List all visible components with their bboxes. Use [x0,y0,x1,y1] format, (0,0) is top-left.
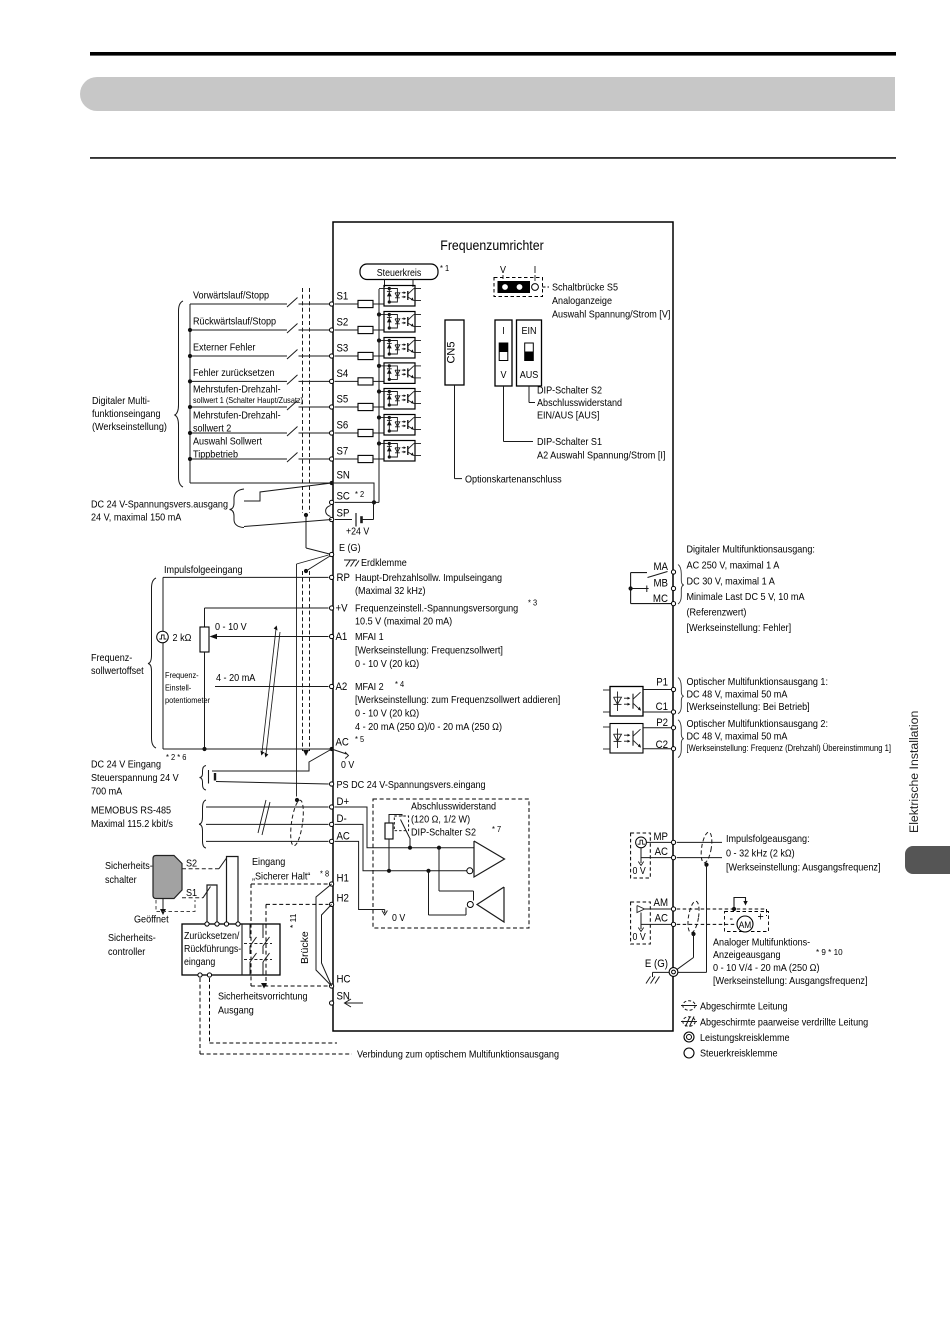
controller bottom terminals [198,973,202,977]
arrow at SN [345,1002,363,1004]
grey header bar [80,77,895,111]
svg-text:AC: AC [655,846,668,858]
svg-text:E (G): E (G) [339,543,361,554]
svg-text:Steuerkreisklemme: Steuerkreisklemme [700,1049,778,1060]
terminal C2 [671,747,675,751]
wire +V [205,607,329,609]
svg-text:Vorwärtslauf/Stopp: Vorwärtslauf/Stopp [193,291,269,302]
svg-text:Rückwärtslauf/Stopp: Rückwärtslauf/Stopp [193,317,276,328]
svg-text:Elektrische Installation: Elektrische Installation [907,710,921,833]
control-circuit block Steuerkreis [360,264,438,280]
wire A2 [215,686,329,688]
terminal D- [330,822,334,826]
brace optical 1 [678,678,684,714]
svg-text:* 11: * 11 [288,913,298,928]
svg-text:A2: A2 [336,681,348,693]
shield oval MP cable [699,831,713,863]
dashed box Sicherer Halt outer [251,883,329,885]
dashed meter frame [725,912,769,932]
relay contact [630,573,632,604]
terminal AM [671,907,675,911]
svg-text:* 1: * 1 [440,263,449,273]
svg-text:funktionseingang: funktionseingang [92,409,161,420]
svg-text:AUS: AUS [520,370,539,381]
svg-text:24 V, maximal 150 mA: 24 V, maximal 150 mA [91,513,181,524]
shield drain to earth [304,513,308,517]
terminal MP [671,840,675,844]
svg-text:MB: MB [654,578,669,590]
svg-text:MEMOBUS RS-485: MEMOBUS RS-485 [91,806,171,817]
svg-text:Digitaler Multi-: Digitaler Multi- [92,396,150,407]
svg-text:S2: S2 [337,317,349,329]
svg-text:[Werkseinstellung: zum Frequen: [Werkseinstellung: zum Frequenzsollwert … [355,695,560,706]
drain MP shield [706,865,708,973]
svg-text:RP: RP [337,572,350,584]
svg-text:Frequenzumrichter: Frequenzumrichter [440,237,544,253]
wire AC memobus [206,840,329,842]
legend shielded line [683,1001,695,1011]
wire driver branch [437,846,441,850]
svg-text:S2: S2 [186,859,197,870]
contact linkage dashed [244,943,272,945]
digital input common bus (left) [189,304,191,483]
svg-text:Erdklemme: Erdklemme [361,558,407,569]
terminal H2 [330,902,334,906]
terminal AC analog common [330,747,334,751]
wire receiver branch [426,869,430,873]
svg-text:* 5: * 5 [355,734,364,744]
opto supply bus [378,289,380,502]
svg-text:S7: S7 [337,446,349,458]
svg-text:V: V [501,370,507,381]
svg-text:[Werkseinstellung: Ausgangsfre: [Werkseinstellung: Ausgangsfrequenz] [713,976,868,987]
earth symbol right [653,971,670,973]
svg-text:Einstell-: Einstell- [165,683,191,693]
open arrow Geoeffnet [162,899,164,911]
svg-text:D+: D+ [337,796,350,808]
terminal MB [671,586,675,590]
controller top terminals [205,922,209,926]
wire MP [646,841,671,843]
photocoupler output 1 [610,687,643,717]
svg-text:(120 Ω, 1/2 W): (120 Ω, 1/2 W) [411,815,470,826]
svg-text:H2: H2 [337,893,349,905]
svg-text:Frequenz-: Frequenz- [91,653,132,664]
svg-text:HC: HC [337,974,351,986]
wire AC pulse [640,848,642,863]
svg-text:schalter: schalter [105,875,137,886]
svg-text:2 kΩ: 2 kΩ [173,633,192,644]
svg-text:S1: S1 [337,291,349,303]
bridge H1 to HC [316,884,332,986]
drain AM shield [693,934,695,958]
svg-text:sollwert 1 (Schalter Haupt/Zus: sollwert 1 (Schalter Haupt/Zusatz) [193,395,303,405]
svg-text:Sicherheits-: Sicherheits- [108,933,156,944]
photocoupler output 2 [610,724,643,754]
svg-text:Leistungskreisklemme: Leistungskreisklemme [700,1033,790,1044]
left analog bus [162,577,164,749]
svg-text:S4: S4 [337,368,349,380]
optocoupler for S7 [384,441,415,462]
recorder loop symbol [734,898,746,910]
svg-text:MFAI 2: MFAI 2 [355,682,384,693]
svg-text:MP: MP [654,831,669,843]
svg-text:EIN/AUS [AUS]: EIN/AUS [AUS] [537,411,600,422]
svg-text:Schaltbrücke S5: Schaltbrücke S5 [552,283,618,294]
drain wire to MEMOBUS shield [296,564,298,797]
svg-text:0 V: 0 V [392,913,405,924]
0V arrow AM [638,928,643,932]
svg-text:-: - [730,911,734,925]
svg-text:potentiometer: potentiometer [165,695,210,705]
termination switch [394,816,408,831]
svg-text:DC 48 V, maximal 50 mA: DC 48 V, maximal 50 mA [687,690,788,701]
twisted pair marks analog [262,629,276,752]
shield oval MEMOBUS [288,799,305,846]
battery +24V [335,519,352,521]
svg-text:DC 24 V Eingang: DC 24 V Eingang [91,760,161,771]
svg-text:0 - 10 V (20 kΩ): 0 - 10 V (20 kΩ) [355,659,419,670]
svg-text:Anzeigeausgang: Anzeigeausgang [713,950,781,961]
dashed box Abschlusswiderstand [373,799,529,928]
optocoupler for S5 [384,389,415,410]
terminal C1 [671,710,675,714]
dashed box Sicherer Halt inner [266,903,329,905]
svg-text:Optischer Multifunktionsausgan: Optischer Multifunktionsausgang 2: [687,719,829,730]
wire D+ [206,806,329,808]
jumper bracket SC-SP [326,506,331,517]
svg-text:Zurücksetzen/: Zurücksetzen/ [184,931,239,942]
wire AM [645,908,672,910]
svg-text:Externer Fehler: Externer Fehler [193,343,256,354]
shield of analog cable (dashed) [302,571,304,751]
svg-text:* 8: * 8 [320,869,329,879]
svg-text:I: I [534,265,537,276]
svg-text:A2 Auswahl Spannung/Strom [I]: A2 Auswahl Spannung/Strom [I] [537,451,666,462]
jumper S5 block [494,278,543,297]
svg-text:AM: AM [739,920,752,931]
wire AC analog [163,748,332,750]
connector CN5 [445,320,464,385]
svg-text:10.5 V (maximal 20 mA): 10.5 V (maximal 20 mA) [355,617,452,628]
terminal +V [330,606,334,610]
wire S2 dashed [182,868,219,870]
svg-text:C2: C2 [656,739,668,751]
svg-text:Geöffnet: Geöffnet [134,915,169,926]
svg-text:Optischer Multifunktionsausgan: Optischer Multifunktionsausgang 1: [687,677,829,688]
wire RP [163,576,329,578]
loop wire S1 to controller [207,885,217,924]
svg-text:0 - 32 kHz (2 kΩ): 0 - 32 kHz (2 kΩ) [726,849,795,860]
wire Steuerkreis to opto bus [384,280,386,288]
svg-text:Frequenzeinstell.-Spannungsver: Frequenzeinstell.-Spannungsversorgung [355,604,518,615]
svg-text:Verbindung zum optischem Multi: Verbindung zum optischem Multifunktionsa… [357,1050,559,1061]
svg-text:Abgeschirmte Leitung: Abgeschirmte Leitung [700,1002,788,1013]
svg-text:Mehrstufen-Drehzahl-: Mehrstufen-Drehzahl- [193,411,281,422]
svg-text:Rückführungs-: Rückführungs- [184,944,241,955]
svg-text:C1: C1 [656,701,668,713]
terminal P1 [671,687,675,691]
svg-text:DC 48 V, maximal 50 mA: DC 48 V, maximal 50 mA [687,732,788,743]
svg-text:DIP-Schalter S2: DIP-Schalter S2 [537,386,602,397]
svg-text:S3: S3 [337,343,349,355]
svg-text:AM: AM [654,897,669,909]
wire SN out to DC24V brace [244,483,332,501]
svg-text:A1: A1 [336,631,348,643]
svg-text:Abschlusswiderstand: Abschlusswiderstand [411,802,496,813]
svg-text:Optionskartenanschluss: Optionskartenanschluss [465,475,562,486]
svg-text:Brücke: Brücke [299,931,311,964]
svg-text:4 - 20 mA: 4 - 20 mA [216,673,255,684]
thin rule under header [90,157,896,159]
svg-text:Haupt-Drehzahlsollw. Impulsein: Haupt-Drehzahlsollw. Impulseingang [355,573,502,584]
legend twisted shielded line [683,1017,695,1027]
terminal MC [671,602,675,606]
svg-text:Sicherheits-: Sicherheits- [105,861,153,872]
svg-text:DIP-Schalter S2: DIP-Schalter S2 [411,828,476,839]
svg-text:EIN: EIN [521,326,536,337]
svg-text:CN5: CN5 [446,341,458,363]
svg-text:Eingang: Eingang [252,857,286,868]
wire DIP S2 to label [528,386,530,403]
terminal P2 [671,726,675,730]
svg-text:SC: SC [337,491,350,503]
svg-text:MA: MA [654,561,669,573]
svg-text:Abschlusswiderstand: Abschlusswiderstand [537,398,622,409]
wire DIP S1 to label [503,386,505,442]
svg-text:* 2: * 2 [355,489,364,499]
svg-text:controller: controller [108,947,146,958]
potentiometer resistor [200,627,209,652]
safety contact chain B [262,924,264,938]
DIP switch S1 [495,320,512,386]
brace DC 24V output [230,489,245,528]
wire D- internal [335,824,467,870]
DIP switch S2 [517,320,542,386]
svg-text:I: I [502,326,505,337]
terminal PS [330,782,334,786]
terminal SP [330,517,334,521]
wire C1 [643,711,671,713]
safety switch body [153,856,182,899]
svg-text:D-: D- [337,813,347,825]
terminal SN [330,481,334,485]
svg-text:DIP-Schalter S1: DIP-Schalter S1 [537,437,602,448]
battery DC24V input [208,770,210,784]
svg-text:[Werkseinstellung: Bei Betrieb: [Werkseinstellung: Bei Betrieb] [687,702,810,713]
shield oval AM cable [686,900,701,933]
svg-text:(Maximal 32 kHz): (Maximal 32 kHz) [355,586,426,597]
wire AC am [640,913,642,930]
meter AM circle [737,916,753,932]
terminal MA [671,570,675,574]
wire CN5 to label [454,385,456,479]
dashed box MP monitor [631,833,651,878]
brace frequency offset [148,578,156,748]
wire D- [206,823,329,825]
svg-text:700 mA: 700 mA [91,787,122,798]
svg-text:eingang: eingang [184,957,215,968]
terminal A1 [330,634,334,638]
svg-text:+: + [758,910,764,924]
legend power terminal [684,1032,694,1042]
svg-text:Fehler zurücksetzen: Fehler zurücksetzen [193,368,275,379]
wire D+ internal [335,807,474,848]
svg-text:DC 24 V-Spannungsvers.ausgang: DC 24 V-Spannungsvers.ausgang [91,500,228,511]
svg-text:0 - 10 V/4 - 20 mA (250 Ω): 0 - 10 V/4 - 20 mA (250 Ω) [713,963,820,974]
legend control terminal [684,1048,694,1058]
svg-text:* 4: * 4 [395,679,404,689]
svg-text:sollwertoffset: sollwertoffset [91,666,144,677]
wire SP out to DC24V brace [244,520,332,527]
terminal AC memobus [330,839,334,843]
svg-text:Frequenz-: Frequenz- [165,670,199,680]
svg-text:0 - 10 V (20 kΩ): 0 - 10 V (20 kΩ) [355,709,419,720]
svg-text:E (G): E (G) [645,958,668,970]
driver triangle [474,841,505,877]
shield of digital input cable (dashed) [302,288,304,513]
terminal E(G) left [330,552,334,556]
svg-text:Analoganzeige: Analoganzeige [552,296,612,307]
earth symbol left [344,559,357,561]
wire SC internal [335,501,379,503]
dashed box AM monitor [631,902,651,944]
svg-text:P1: P1 [656,677,668,689]
brace DC24V input [200,766,207,791]
svg-text:0 V: 0 V [633,866,646,877]
optocoupler for S6 [384,415,415,436]
wire P2 [643,727,671,729]
0V reference at AC [332,749,347,754]
wire S1 dashed [182,897,203,899]
twisted pair marks memobus [258,800,266,833]
svg-text:AC 250 V, maximal 1 A: AC 250 V, maximal 1 A [687,561,780,572]
svg-text:[Werkseinstellung: Frequenzsol: [Werkseinstellung: Frequenzsollwert] [355,646,503,657]
svg-text:Analoger Multifunktions-: Analoger Multifunktions- [713,938,810,949]
brace relay [678,565,684,605]
brace optical 2 [678,720,684,758]
svg-text:Impulsfolgeausgang:: Impulsfolgeausgang: [726,834,810,845]
svg-text:Ausgang: Ausgang [218,1006,254,1017]
wire C2 [643,748,671,750]
page top rule [90,52,896,56]
pulse meter symbol [636,837,647,848]
side tab [905,846,950,874]
0V arrow MP [638,862,643,866]
terminal E(G) right [669,968,678,977]
svg-text:Auswahl Spannung/Strom [V]: Auswahl Spannung/Strom [V] [552,310,671,321]
svg-text:0 - 10 V: 0 - 10 V [215,622,247,633]
svg-text:AC: AC [655,913,668,925]
wire SN to SC riser [332,483,374,502]
svg-text:[Werkseinstellung: Fehler]: [Werkseinstellung: Fehler] [687,623,792,634]
svg-text:+24 V: +24 V [346,527,369,538]
svg-text:Maximal 115.2 kbit/s: Maximal 115.2 kbit/s [91,819,173,830]
wire AC internal 0V [335,841,385,909]
terminal HC [330,984,334,988]
svg-text:* 9 * 10: * 9 * 10 [816,947,843,957]
svg-text:MFAI 1: MFAI 1 [355,632,384,643]
svg-text:Steuerspannung 24 V: Steuerspannung 24 V [91,773,179,784]
svg-text:AC: AC [336,737,349,749]
safety contact chain A [249,924,251,938]
svg-text:Auswahl Sollwert: Auswahl Sollwert [193,437,262,448]
pulse source symbol [157,631,169,643]
terminal SC [330,500,334,504]
optocoupler for S2 [384,312,415,333]
svg-text:4 - 20 mA (250 Ω)/0 - 20 mA (2: 4 - 20 mA (250 Ω)/0 - 20 mA (250 Ω) [355,722,502,733]
terminal RP [330,575,334,579]
optocoupler for S4 [384,363,415,384]
svg-text:Abgeschirmte paarweise verdril: Abgeschirmte paarweise verdrillte Leitun… [700,1017,868,1028]
svg-text:SP: SP [337,508,350,520]
svg-text:DC 30 V, maximal 1 A: DC 30 V, maximal 1 A [687,577,775,588]
svg-text:AC: AC [337,831,350,843]
svg-text:V: V [500,265,506,276]
termination resistor [385,823,393,839]
terminal A2 [330,684,334,688]
svg-text:0 V: 0 V [341,760,354,771]
terminal AC am [671,922,675,926]
svg-text:Minimale Last DC 5 V, 10 mA: Minimale Last DC 5 V, 10 mA [687,592,805,603]
svg-text:P2: P2 [656,717,668,729]
svg-text:* 7: * 7 [492,824,501,834]
svg-text:MC: MC [653,593,668,605]
brace digital inputs [175,301,183,487]
brace MEMOBUS [199,800,206,848]
svg-text:(Werkseinstellung): (Werkseinstellung) [92,422,167,433]
svg-text:S6: S6 [337,420,349,432]
svg-text:0 V: 0 V [633,932,646,943]
svg-text:PS DC 24 V-Spannungsvers.einga: PS DC 24 V-Spannungsvers.eingang [337,780,486,791]
svg-text:SN: SN [337,470,350,482]
optocoupler for S3 [384,338,415,359]
external meter wiring dashed [677,908,767,910]
svg-text:[Werkseinstellung: Frequenz (D: [Werkseinstellung: Frequenz (Drehzahl) Ü… [687,743,892,753]
terminal H1 [330,882,334,886]
svg-text:Mehrstufen-Drehzahl-: Mehrstufen-Drehzahl- [193,385,281,396]
svg-text:Impulsfolgeeingang: Impulsfolgeeingang [164,565,243,576]
optocoupler for S1 [384,286,415,307]
svg-text:H1: H1 [337,873,349,885]
terminal D+ [330,805,334,809]
svg-text:[Werkseinstellung: Ausgangsfre: [Werkseinstellung: Ausgangsfrequenz] [726,863,881,874]
svg-text:(Referenzwert): (Referenzwert) [687,608,747,619]
terminal AC pulse [671,856,675,860]
terminal SN safe [330,1001,334,1005]
svg-text:* 2 * 6: * 2 * 6 [166,752,187,762]
svg-text:+V: +V [336,603,349,615]
svg-text:Steuerkreis: Steuerkreis [377,268,422,279]
receiver triangle [477,887,504,922]
safety controller box [182,924,280,975]
svg-text:Sicherheitsvorrichtung: Sicherheitsvorrichtung [218,992,308,1003]
frequency inverter enclosure U1 [333,222,673,1031]
svg-text:Digitaler Multifunktionsausgan: Digitaler Multifunktionsausgang: [687,545,815,556]
wire A1 with wiper arrow [211,636,329,638]
amp symbol [637,906,645,913]
dashed output drops [199,978,201,1054]
svg-text:„Sicherer Halt“: „Sicherer Halt“ [252,872,311,883]
svg-text:* 3: * 3 [528,598,537,608]
bridge H2 to HC [322,904,332,986]
loop wire S2 to controller [227,857,239,925]
wire P1 [643,689,671,691]
svg-text:S5: S5 [337,394,349,406]
